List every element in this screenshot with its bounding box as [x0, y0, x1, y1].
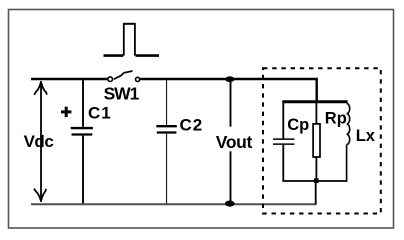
switch SW1 left contact — [108, 77, 113, 82]
node junction dot Rp bottom — [314, 178, 319, 183]
inductor Lx — [347, 103, 350, 181]
wire: bottom rail — [31, 203, 317, 205]
svg-text:SW1: SW1 — [104, 84, 140, 104]
svg-text:Cp: Cp — [287, 116, 309, 134]
resistor Rp — [313, 103, 320, 181]
wire: top rail (left of switch) — [31, 78, 108, 80]
node dot at Vout bottom — [225, 201, 235, 207]
C1 polarity plus — [61, 107, 71, 117]
svg-text:Vdc: Vdc — [24, 132, 54, 151]
svg-text:Lx: Lx — [356, 127, 376, 145]
svg-text:C2: C2 — [180, 115, 204, 134]
capacitor C1 — [71, 80, 93, 203]
wire: Vout branch upper — [230, 80, 232, 127]
svg-text:Rp: Rp — [325, 110, 347, 128]
capacitor C2 — [156, 80, 177, 203]
switch SW1 lever — [114, 71, 133, 79]
crystal equivalent dashed box — [263, 68, 381, 213]
capacitor Cp — [273, 103, 294, 181]
switch SW1 right contact — [136, 77, 140, 81]
source Vdc measurement arrow — [34, 81, 47, 202]
wire: tank bottom node — [282, 180, 347, 182]
svg-text:Vout: Vout — [216, 132, 253, 152]
wire: Vout branch lower — [230, 151, 232, 203]
wire: tank top node (thick) — [282, 100, 347, 103]
pulse stimulus symbol — [104, 24, 160, 56]
wire: top rail (switch to tank turn-down) — [140, 79, 317, 102]
svg-text:C1: C1 — [88, 104, 112, 123]
node dot at Vout top — [225, 76, 234, 82]
wire: tank bottom return (up into dashed box) — [315, 181, 317, 204]
